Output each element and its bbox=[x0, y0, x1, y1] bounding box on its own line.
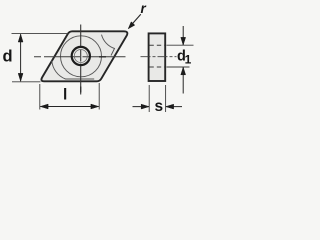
svg-text:s: s bbox=[155, 98, 164, 115]
svg-text:l: l bbox=[63, 87, 67, 104]
hole inner circle bbox=[74, 50, 87, 63]
dimension s: right extension line bbox=[165, 85, 167, 112]
d1 extension line lower bbox=[167, 66, 190, 68]
dimension d: bottom extension line bbox=[12, 81, 41, 83]
dimension s: left extension line bbox=[148, 85, 150, 112]
side view hole hidden line (upper) bbox=[149, 44, 164, 46]
centerline tick below hole bbox=[80, 87, 82, 93]
vertical centerline bbox=[80, 25, 82, 95]
dimension l: right extension line bbox=[98, 83, 100, 110]
dimension d: top extension line bbox=[12, 33, 69, 35]
insert body (plan view outline, rhombus) bbox=[41, 31, 127, 81]
centerline tick right of hole bbox=[99, 56, 106, 58]
svg-text:r: r bbox=[141, 1, 147, 16]
svg-text:1: 1 bbox=[185, 52, 192, 66]
dimension s: left arrow bbox=[133, 106, 150, 108]
side view hole hidden line (lower) bbox=[149, 66, 164, 68]
dimension l: left extension line bbox=[39, 84, 41, 110]
chipbreaker circle around hole bbox=[61, 36, 102, 77]
corner groove arc near right vertex bbox=[102, 35, 115, 56]
side view body bbox=[149, 33, 166, 81]
dimension s: right arrow bbox=[166, 106, 182, 108]
dimension d: line with arrows bbox=[20, 34, 22, 81]
svg-text:d: d bbox=[3, 48, 13, 66]
r leader arrow bbox=[130, 14, 140, 26]
hole rim (thick circle) bbox=[72, 47, 90, 65]
corner groove arc near left vertex bbox=[52, 61, 94, 80]
d1 extension line upper bbox=[167, 44, 194, 46]
d1 lower arrow bbox=[182, 67, 184, 93]
d1 upper arrow bbox=[182, 26, 184, 45]
horizontal centerline bbox=[34, 56, 126, 58]
dimension l: line with arrows bbox=[40, 106, 98, 108]
side view centerline bbox=[141, 56, 177, 58]
